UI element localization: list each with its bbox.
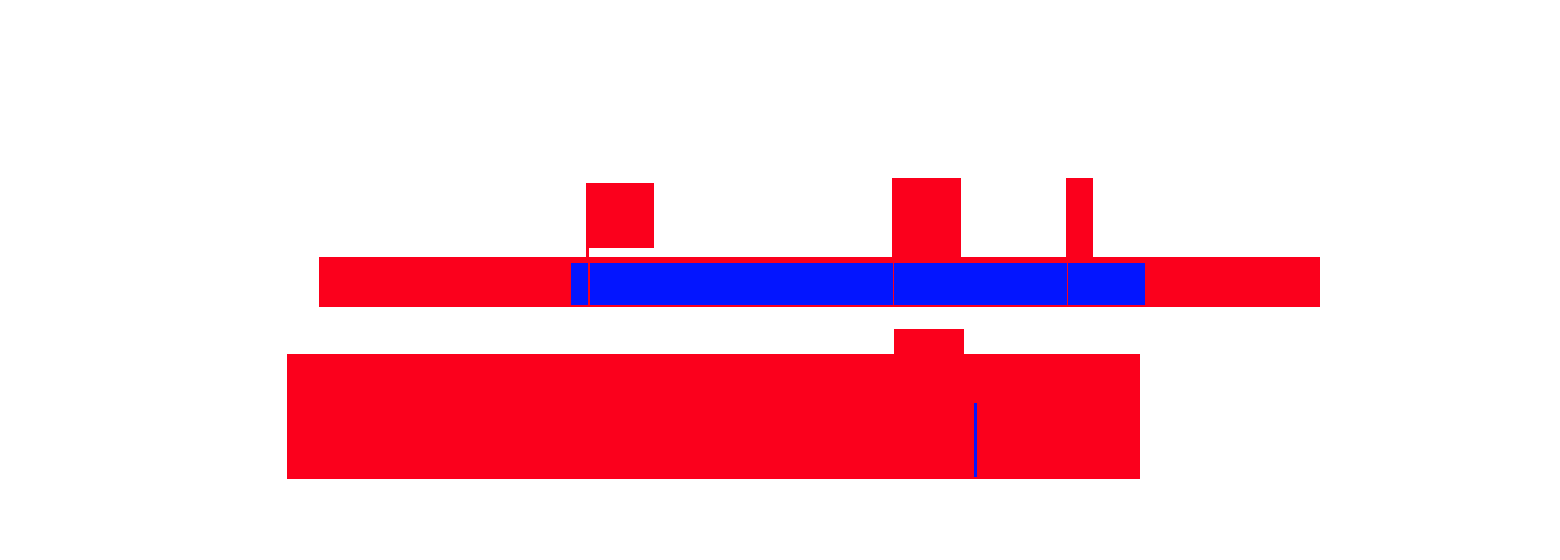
timeline bar (red) [319, 257, 1320, 307]
separator line 2 in blue strip [893, 263, 895, 305]
marker flag 1 stem [586, 248, 590, 257]
separator line 1 in blue strip [588, 263, 590, 305]
marker block 3 above bar [1066, 178, 1093, 258]
blue cursor line inside panel [974, 403, 977, 477]
separator line 3 in blue strip [1067, 263, 1068, 305]
tooltip panel (big red rectangle) [287, 354, 1140, 479]
blue segment strip inside bar [571, 263, 1145, 305]
marker block 2 above bar [892, 178, 961, 258]
marker flag square 1 above bar [586, 183, 654, 248]
tooltip tab on top of panel [894, 329, 964, 354]
